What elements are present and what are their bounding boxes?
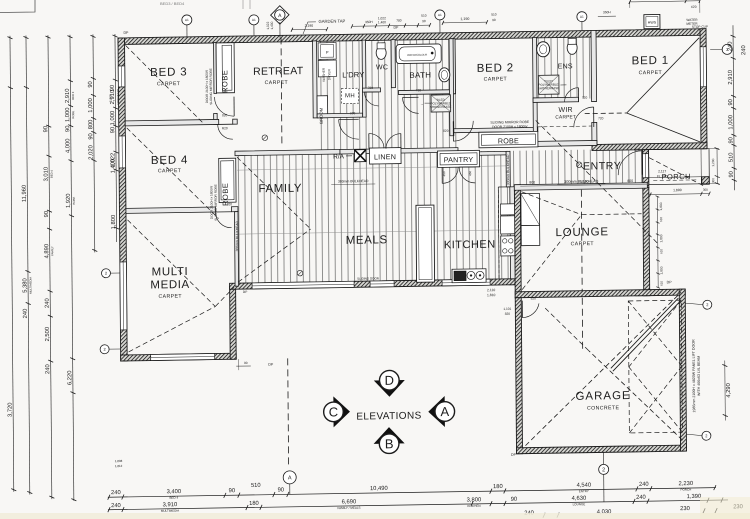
- svg-text:300: 300: [703, 188, 708, 192]
- svg-text:BED 2: BED 2: [477, 62, 514, 75]
- svg-text:1,800: 1,800: [659, 202, 663, 210]
- svg-text:CARPET: CARPET: [158, 294, 182, 300]
- svg-text:ENS: ENS: [558, 63, 573, 70]
- svg-text:1,800: 1,800: [659, 234, 663, 242]
- svg-text:800: 800: [529, 180, 535, 184]
- svg-text:MULTIMEDIA: MULTIMEDIA: [28, 277, 32, 294]
- svg-text:1,101: 1,101: [503, 307, 511, 311]
- svg-text:90: 90: [65, 126, 71, 133]
- svg-text:BED 1: BED 1: [632, 55, 669, 68]
- svg-text:CARPET: CARPET: [157, 81, 181, 87]
- svg-text:1,000: 1,000: [88, 98, 94, 113]
- svg-text:SHOWERBASE: SHOWERBASE: [430, 105, 452, 109]
- svg-text:LOUNGE: LOUNGE: [573, 502, 586, 506]
- svg-text:RETREAT: RETREAT: [253, 65, 304, 78]
- svg-text:820: 820: [531, 296, 537, 300]
- svg-text:DOOR 2100H x 1800W: DOOR 2100H x 1800W: [209, 186, 213, 219]
- svg-text:A: A: [440, 404, 449, 419]
- svg-text:350H: 350H: [365, 20, 373, 24]
- svg-text:DP: DP: [667, 280, 673, 284]
- svg-text:1,400: 1,400: [111, 159, 117, 174]
- svg-text:2: 2: [602, 467, 605, 473]
- svg-text:240: 240: [636, 495, 646, 501]
- svg-text:KITCHEN: KITCHEN: [444, 239, 496, 252]
- svg-text:FAMILY: FAMILY: [258, 183, 302, 196]
- svg-text:4,000: 4,000: [65, 138, 71, 153]
- svg-text:10,490: 10,490: [370, 486, 388, 492]
- svg-text:90: 90: [728, 137, 734, 144]
- svg-text:180: 180: [493, 484, 503, 490]
- svg-text:920: 920: [634, 148, 640, 152]
- svg-text:300: 300: [711, 178, 715, 183]
- svg-text:BED 3: BED 3: [71, 91, 75, 100]
- svg-text:BROOM: BROOM: [319, 107, 324, 123]
- svg-text:D: D: [385, 373, 395, 388]
- svg-text:BED3 / BED4: BED3 / BED4: [160, 1, 185, 6]
- svg-text:A1: A1: [438, 13, 442, 17]
- svg-text:510: 510: [491, 13, 497, 17]
- svg-text:820: 820: [227, 202, 233, 206]
- svg-text:1,800: 1,800: [673, 188, 682, 192]
- svg-text:B: B: [385, 436, 394, 451]
- svg-text:R20: R20: [222, 126, 228, 130]
- svg-text:350H: 350H: [603, 10, 611, 14]
- svg-text:800: 800: [627, 179, 633, 183]
- svg-text:KITCHEN: KITCHEN: [467, 504, 480, 508]
- svg-text:CARPET: CARPET: [265, 80, 289, 86]
- svg-text:90: 90: [729, 171, 735, 178]
- svg-text:GARAGE: GARAGE: [575, 390, 630, 403]
- svg-text:FAMILY: FAMILY: [50, 246, 54, 256]
- svg-text:510: 510: [729, 152, 735, 162]
- svg-text:1,800: 1,800: [111, 215, 117, 230]
- svg-text:DP: DP: [123, 31, 129, 35]
- svg-text:ROBE: ROBE: [71, 111, 75, 119]
- svg-text:300mm BULKHEAD: 300mm BULKHEAD: [235, 220, 239, 251]
- svg-text:1,800: 1,800: [659, 266, 663, 274]
- svg-text:820: 820: [443, 129, 449, 133]
- svg-text:610: 610: [659, 249, 663, 254]
- svg-text:3,720: 3,720: [8, 402, 14, 417]
- svg-text:90: 90: [422, 19, 426, 23]
- svg-text:BATH: BATH: [409, 71, 431, 80]
- svg-text:WIR: WIR: [559, 107, 573, 114]
- svg-text:240: 240: [45, 298, 51, 308]
- svg-text:800: 800: [88, 120, 94, 130]
- svg-text:WITH 400x63 LVL BEAM: WITH 400x63 LVL BEAM: [697, 356, 701, 396]
- svg-text:2,910: 2,910: [728, 70, 734, 85]
- svg-text:2,230: 2,230: [679, 481, 694, 487]
- svg-text:90: 90: [511, 497, 518, 503]
- svg-text:WATERCOLOUR: WATERCOLOUR: [407, 53, 427, 57]
- svg-text:1,390: 1,390: [687, 494, 702, 500]
- svg-text:1,810: 1,810: [487, 293, 496, 297]
- svg-text:4,540: 4,540: [577, 483, 592, 489]
- svg-text:510: 510: [421, 14, 427, 18]
- svg-text:240: 240: [639, 482, 649, 488]
- svg-text:610: 610: [659, 217, 663, 222]
- svg-text:CONCRETE: CONCRETE: [587, 405, 619, 412]
- svg-text:1985mm 2100H x 4820W PANEL LI: 1985mm 2100H x 4820W PANEL LIFT DOOR: [692, 339, 697, 413]
- svg-text:P: P: [326, 50, 329, 55]
- svg-text:1,200: 1,200: [711, 158, 715, 166]
- svg-text:1,020: 1,020: [108, 94, 112, 102]
- svg-text:510: 510: [251, 483, 261, 489]
- svg-text:MH: MH: [345, 93, 355, 99]
- svg-text:DP: DP: [511, 453, 517, 457]
- svg-text:SLIDING DOOR: SLIDING DOOR: [357, 276, 380, 280]
- svg-text:240: 240: [728, 41, 734, 51]
- svg-text:720: 720: [582, 96, 588, 100]
- svg-text:CARPET: CARPET: [639, 70, 663, 76]
- svg-text:FAMILY / MEALS: FAMILY / MEALS: [337, 506, 360, 510]
- svg-text:2,190: 2,190: [305, 24, 314, 28]
- svg-text:SHOWERBASE: SHOWERBASE: [538, 86, 560, 90]
- svg-text:720: 720: [368, 86, 374, 90]
- svg-text:LOUNGE: LOUNGE: [555, 226, 608, 239]
- svg-text:BED 4: BED 4: [151, 154, 188, 167]
- svg-text:240: 240: [45, 364, 51, 374]
- svg-text:WASHER: WASHER: [322, 67, 326, 82]
- svg-text:DP: DP: [393, 26, 399, 30]
- svg-text:MULTI: MULTI: [152, 266, 189, 279]
- svg-text:WC: WC: [376, 64, 388, 71]
- svg-text:LINEN: LINEN: [374, 152, 396, 161]
- svg-text:PANTRY: PANTRY: [444, 155, 474, 164]
- svg-text:240: 240: [111, 503, 121, 509]
- svg-text:90: 90: [43, 126, 49, 133]
- svg-text:MULTIMEDIA: MULTIMEDIA: [161, 509, 179, 513]
- svg-text:MEDIA: MEDIA: [150, 279, 190, 292]
- svg-text:90: 90: [88, 133, 94, 140]
- svg-text:2,500: 2,500: [45, 327, 51, 342]
- svg-text:A: A: [288, 475, 292, 481]
- svg-text:L'DRY: L'DRY: [342, 70, 364, 79]
- svg-text:ENTRY: ENTRY: [583, 160, 622, 173]
- svg-text:90: 90: [88, 81, 94, 88]
- svg-text:4,630: 4,630: [572, 496, 587, 502]
- svg-text:2,020: 2,020: [88, 145, 94, 160]
- svg-text:CARPET: CARPET: [484, 76, 508, 82]
- svg-text:620: 620: [691, 5, 697, 9]
- svg-text:ROBE: ROBE: [72, 197, 76, 205]
- svg-text:240: 240: [23, 309, 29, 319]
- svg-text:1,808: 1,808: [115, 459, 123, 463]
- svg-text:ELEVATIONS: ELEVATIONS: [356, 411, 421, 423]
- svg-text:780: 780: [396, 19, 402, 23]
- svg-text:DOOR 2100H x 1800W: DOOR 2100H x 1800W: [205, 70, 209, 103]
- svg-text:C: C: [329, 404, 339, 419]
- svg-text:180: 180: [249, 501, 259, 507]
- svg-text:3,800: 3,800: [467, 497, 482, 503]
- svg-text:A1: A1: [252, 18, 256, 22]
- svg-text:A1: A1: [185, 18, 189, 22]
- svg-text:11,960: 11,960: [22, 185, 28, 202]
- svg-text:SLIDING MIRROR ROBE: SLIDING MIRROR ROBE: [209, 68, 213, 105]
- svg-text:450: 450: [468, 171, 472, 176]
- svg-text:DOOR 2100H x 1800W: DOOR 2100H x 1800W: [492, 125, 528, 130]
- svg-text:A1: A1: [580, 15, 584, 19]
- svg-text:FL:230: FL:230: [657, 174, 668, 178]
- svg-text:90: 90: [492, 18, 496, 22]
- svg-text:6,220: 6,220: [67, 370, 73, 385]
- svg-text:1,190: 1,190: [460, 17, 469, 21]
- svg-text:ENTRY: ENTRY: [579, 489, 589, 493]
- svg-text:DP: DP: [243, 290, 247, 294]
- svg-text:CARPET: CARPET: [555, 114, 576, 120]
- svg-text:1,400: 1,400: [378, 20, 386, 24]
- svg-text:L'DRY/BATH: L'DRY/BATH: [116, 89, 120, 105]
- svg-text:90: 90: [728, 99, 734, 106]
- svg-text:90: 90: [278, 487, 285, 493]
- svg-text:BED 4: BED 4: [170, 496, 179, 500]
- svg-text:2,110: 2,110: [487, 288, 495, 292]
- svg-text:820: 820: [505, 312, 511, 316]
- svg-text:DRYER: DRYER: [327, 68, 331, 80]
- svg-text:ROBE: ROBE: [498, 136, 519, 145]
- svg-text:6,690: 6,690: [342, 499, 357, 505]
- svg-text:240: 240: [111, 490, 121, 496]
- svg-text:HWS: HWS: [648, 20, 657, 24]
- svg-text:610: 610: [660, 281, 664, 286]
- svg-text:2,117: 2,117: [658, 169, 666, 173]
- svg-text:90: 90: [229, 488, 236, 494]
- svg-text:90: 90: [244, 361, 248, 365]
- svg-text:720: 720: [416, 88, 422, 92]
- svg-text:BED 4: BED 4: [50, 170, 54, 179]
- svg-text:820: 820: [222, 113, 228, 117]
- svg-text:GARDEN TAP: GARDEN TAP: [318, 18, 345, 23]
- svg-text:1,812: 1,812: [115, 464, 123, 468]
- svg-text:240: 240: [741, 45, 747, 55]
- svg-text:MEALS: MEALS: [346, 234, 388, 247]
- svg-text:CARPET: CARPET: [158, 168, 182, 174]
- svg-text:3,910: 3,910: [163, 502, 178, 508]
- svg-text:720: 720: [598, 116, 604, 120]
- svg-text:→: →: [420, 102, 424, 106]
- svg-text:1,000: 1,000: [110, 111, 116, 126]
- svg-text:ROBE: ROBE: [220, 70, 229, 93]
- svg-text:4,290: 4,290: [726, 383, 732, 398]
- svg-text:3,400: 3,400: [167, 489, 182, 495]
- svg-text:300mm BULKHEAD: 300mm BULKHEAD: [338, 179, 369, 183]
- svg-text:STOP CUP: STOP CUP: [692, 25, 708, 29]
- svg-text:R/A: R/A: [333, 153, 345, 160]
- svg-text:90: 90: [44, 211, 50, 218]
- svg-text:300mm BULKHEAD: 300mm BULKHEAD: [506, 154, 510, 185]
- svg-text:1,400: 1,400: [270, 21, 274, 29]
- svg-text:DP: DP: [268, 363, 274, 367]
- svg-text:BED 3: BED 3: [150, 66, 187, 79]
- svg-text:230: 230: [680, 506, 690, 512]
- svg-text:3,100: 3,100: [580, 180, 589, 184]
- svg-text:CARPET: CARPET: [571, 241, 595, 247]
- svg-text:600: 600: [350, 111, 356, 115]
- svg-text:PORCH: PORCH: [680, 488, 691, 492]
- svg-text:450: 450: [442, 171, 446, 176]
- svg-text:90: 90: [110, 127, 116, 134]
- svg-text:1,000: 1,000: [728, 115, 734, 130]
